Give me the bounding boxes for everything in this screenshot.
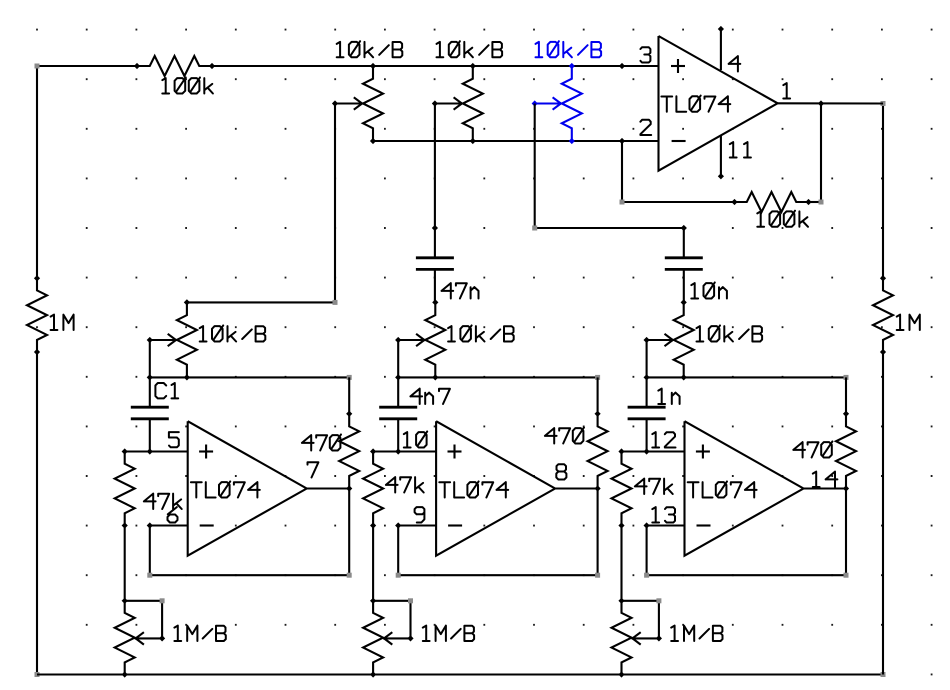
wire right rail: [882, 104, 884, 279]
pin label 8 (output): [556, 464, 566, 479]
resistor 47k stage 3: [612, 452, 632, 526]
op-amp U1A TL074 output stage: [659, 36, 778, 171]
wire left rail: [36, 66, 38, 278]
wire feedback box stage 3: [845, 489, 847, 576]
capacitor 47n: [434, 228, 436, 258]
wire 47k to 1M/B stage 3: [620, 526, 622, 601]
resistor 100k input: [137, 56, 212, 76]
label 10k/B top 1: [337, 41, 403, 57]
wire stage 3 top rail: [647, 376, 846, 378]
pin label 1: [783, 83, 790, 98]
resistor 470 stage 1: [339, 414, 359, 489]
pin label 9: [415, 507, 425, 522]
capacitor 4n7: [397, 377, 399, 407]
plus sign U1: [671, 65, 685, 67]
pin label 11: [730, 142, 751, 157]
potentiometer 10k/B top P3 (selected, blue): [562, 66, 582, 141]
label 10k/B stage 3: [697, 325, 763, 341]
wire 47k to 1M/B stage 1: [124, 526, 126, 601]
label 47k stage 3: [635, 479, 673, 494]
resistor 47k stage 1: [115, 452, 135, 526]
pin label 5: [169, 432, 179, 447]
label 100k: [162, 77, 213, 93]
potentiometer 10k/B top P2: [463, 66, 483, 141]
potentiometer 10k/B stage 3: [674, 302, 694, 377]
wire stage 1 wiper/rail vertical: [149, 340, 151, 377]
pin label 13: [652, 507, 675, 522]
wire pin- stage 3: [647, 524, 685, 526]
wire output stage 1: [307, 487, 350, 489]
label 47k stage 2: [386, 477, 424, 492]
wire stage 3 rail down to R470: [845, 377, 847, 413]
potentiometer 1M/B stage 1: [115, 601, 135, 675]
potentiometer 1M/B stage 2: [363, 601, 383, 675]
wire stage 2 top rail: [398, 376, 597, 378]
label 1n: [658, 389, 679, 404]
pin 3 stub: [619, 63, 625, 69]
resistor 470 stage 3: [836, 414, 856, 489]
pin 2 stub: [619, 138, 625, 144]
label 10k/B stage 2: [448, 325, 514, 341]
wire stage 2 rail down to R470: [597, 377, 599, 413]
wire feedback box stage 2: [597, 489, 599, 576]
pin label 14 (output): [813, 472, 838, 487]
wire feedback box stage 1: [348, 489, 350, 576]
label TL074 stage 1: [191, 481, 260, 497]
wire 1M/B wiper loop stage 3: [622, 600, 659, 602]
minus sign stage 3: [697, 524, 711, 526]
wire pot P3 wiper down and right to C 10n: [534, 104, 536, 229]
label 100k feedback: [757, 211, 808, 227]
power pin 4: [720, 29, 722, 70]
capacitor 10n: [683, 228, 685, 258]
label 4n7: [410, 389, 450, 404]
wire pin- stage 1: [150, 524, 188, 526]
label C1: [155, 383, 178, 398]
label 1M left: [51, 315, 74, 330]
pin label 10: [404, 431, 427, 447]
plus sign stage 2: [448, 450, 462, 452]
wire pot P1 wiper to stage1 pot top: [334, 104, 336, 303]
wire output stage 3: [804, 487, 847, 489]
wire stage 2 wiper/rail vertical: [397, 340, 399, 377]
power pin 11: [720, 136, 722, 177]
label 470 stage 2: [545, 427, 584, 443]
wire feedback loop U1: [621, 141, 623, 202]
wire 1M/B wiper loop stage 2: [373, 600, 410, 602]
wire stage 1 rail down to R470: [348, 377, 350, 413]
wire pin- stage 2: [398, 524, 436, 526]
label 10k/B top 3: [536, 41, 602, 57]
op-amp TL074 stage 2: [436, 421, 555, 556]
wire pot P2 wiper down to C 47n: [434, 104, 436, 229]
wire 47k to 1M/B stage 2: [372, 526, 374, 601]
op-amp TL074 stage 1: [188, 421, 307, 556]
plus sign stage 3: [696, 450, 710, 452]
minus sign U1: [672, 140, 686, 142]
wire rail2 pin2 net: [373, 140, 659, 142]
minus sign stage 2: [448, 524, 462, 526]
label 1M/B stage 3: [671, 626, 722, 641]
op-amp TL074 stage 3: [685, 421, 804, 556]
wire pin+ stage 2: [373, 450, 436, 452]
pin label 6: [168, 507, 178, 522]
potentiometer 10k/B stage 2: [425, 302, 445, 377]
resistor 470 stage 2: [588, 414, 608, 489]
plus sign stage 1: [199, 450, 213, 452]
pin label 4: [729, 56, 741, 71]
label 10k/B top 2: [437, 41, 503, 57]
resistor 47k stage 2: [363, 452, 383, 526]
wire pin+ stage 3: [622, 450, 685, 452]
wire 1M/B wiper loop stage 1: [125, 600, 162, 602]
potentiometer 10k/B top P1: [363, 66, 383, 141]
resistor 1M right: [873, 278, 893, 352]
minus sign stage 1: [200, 524, 214, 526]
pin label 7 (output): [308, 462, 319, 477]
label 470 stage 1: [302, 434, 341, 450]
wire bottom rail: [37, 673, 883, 675]
label 10n: [691, 282, 727, 298]
wire output pin 1: [778, 102, 883, 104]
label TL074 U1: [661, 96, 730, 112]
pin label 12: [652, 432, 675, 447]
label 1M right: [897, 315, 920, 330]
label 1M/B stage 2: [423, 626, 474, 641]
label TL074 stage 2: [439, 481, 508, 497]
wire pin+ stage 1: [125, 450, 188, 452]
label 470 stage 3: [793, 441, 832, 457]
capacitor C1: [149, 377, 151, 407]
resistor 1M left: [27, 278, 47, 352]
pin label 2: [640, 120, 651, 135]
wire top rail input/pin3 net: [37, 65, 137, 67]
pin label 3: [640, 47, 650, 62]
potentiometer 1M/B stage 3: [612, 601, 632, 675]
wire output stage 2: [555, 487, 598, 489]
label 1M/B stage 1: [174, 626, 225, 641]
label 10k/B stage 1: [200, 325, 266, 341]
capacitor 1n: [646, 377, 648, 407]
wire stage 3 wiper/rail vertical: [646, 340, 648, 377]
wire stage 1 top rail: [150, 376, 349, 378]
label TL074 stage 3: [688, 481, 757, 497]
potentiometer 10k/B stage 1: [177, 302, 197, 377]
label 47n: [442, 283, 479, 298]
label 47k stage 1: [144, 494, 182, 509]
resistor 100k feedback: [735, 192, 809, 212]
